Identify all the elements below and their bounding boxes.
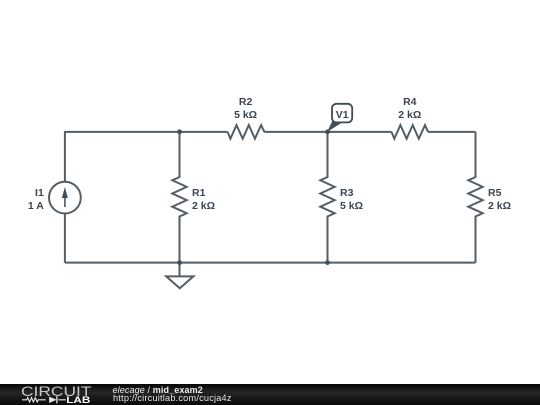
svg-text:I1: I1 <box>35 187 44 199</box>
resistor R3 (vertical, with leads) <box>320 132 334 263</box>
svg-text:R2: R2 <box>239 96 253 108</box>
wire: top-right horizontal segment <box>428 131 475 133</box>
node: bottom junction at R1 / ground <box>177 260 182 265</box>
wire: top-left horizontal segment <box>65 131 228 133</box>
svg-text:V1: V1 <box>336 109 349 121</box>
current source I1 arrow <box>62 187 68 207</box>
svg-text:5 kΩ: 5 kΩ <box>234 109 257 121</box>
wire: top-middle horizontal segment <box>264 131 391 133</box>
resistor R5 (vertical, with leads) <box>468 132 482 263</box>
svg-text:2 kΩ: 2 kΩ <box>488 200 511 212</box>
node: top junction at R3 / V1 <box>325 129 330 134</box>
wire: bottom horizontal segment <box>65 262 476 264</box>
svg-text:R4: R4 <box>403 96 417 108</box>
svg-text:R5: R5 <box>488 187 502 199</box>
net label V1 box <box>332 104 352 123</box>
wire: left vertical upper segment <box>64 131 66 182</box>
wire: left vertical lower segment <box>64 213 66 262</box>
footer attribution bar <box>0 384 540 405</box>
resistor R2 (horizontal body) <box>228 125 265 139</box>
svg-text:2 kΩ: 2 kΩ <box>192 200 215 212</box>
net label V1 pointer wedge <box>327 121 342 132</box>
svg-text:R3: R3 <box>340 187 354 199</box>
CircuitLab logo <box>0 384 110 405</box>
attribution text <box>111 383 113 385</box>
node: top junction at R1 <box>177 129 182 134</box>
logo resistor-diode glyph <box>22 398 66 402</box>
resistor R4 (horizontal body) <box>392 125 429 139</box>
svg-text:LAB: LAB <box>66 395 91 405</box>
node: bottom junction at R3 <box>325 260 330 265</box>
svg-text:5 kΩ: 5 kΩ <box>340 200 363 212</box>
ground symbol <box>166 263 193 289</box>
svg-text:1 A: 1 A <box>28 200 44 212</box>
current source I1 (circle symbol) <box>49 182 81 214</box>
svg-text:2 kΩ: 2 kΩ <box>398 109 421 121</box>
resistor R1 (vertical, with leads) <box>172 132 186 263</box>
svg-text:R1: R1 <box>192 187 206 199</box>
